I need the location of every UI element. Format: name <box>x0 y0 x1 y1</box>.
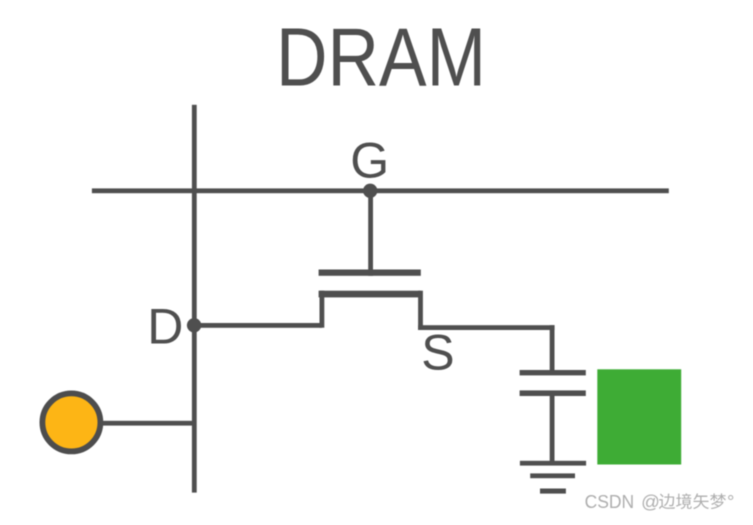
orange terminal circle <box>42 393 100 451</box>
ground symbol bar 1 <box>520 461 586 466</box>
wire: bit line (vertical) <box>192 105 197 493</box>
svg-text:°: ° <box>727 491 734 512</box>
green storage block <box>597 369 681 464</box>
svg-text:S: S <box>421 324 454 380</box>
wire: word line (horizontal) <box>92 188 669 193</box>
svg-text:CSDN: CSDN <box>585 491 635 512</box>
watermark CSDN @bianjingshimeng <box>585 491 736 513</box>
ground symbol bar 2 <box>530 473 575 478</box>
transistor Q1 gate plate <box>319 270 421 276</box>
wire: source wire to capacitor corner <box>418 325 554 330</box>
svg-text:DRAM: DRAM <box>276 11 486 103</box>
transistor Q1 channel bar <box>319 291 421 298</box>
wire: drain wire D to transistor <box>194 323 322 328</box>
wire: capacitor stem bottom <box>550 393 555 463</box>
wire: transistor Q1 source leg <box>418 291 423 330</box>
wire: circle to bit line <box>102 421 197 426</box>
capacitor C1 top plate <box>520 370 586 375</box>
capacitor C1 bottom plate <box>520 390 586 396</box>
wire: gate stem <box>368 191 373 276</box>
svg-text:G: G <box>350 133 389 189</box>
ground symbol bar 3 <box>540 489 566 494</box>
node D junction dot <box>187 318 201 332</box>
svg-text:D: D <box>147 299 183 355</box>
svg-text:@: @ <box>641 491 660 512</box>
node G junction dot <box>363 184 377 198</box>
wire: transistor Q1 drain leg <box>320 291 325 328</box>
wire: capacitor stem top <box>550 325 555 373</box>
